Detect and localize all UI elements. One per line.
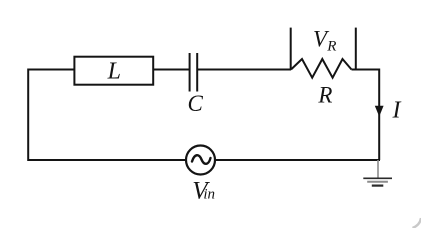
ground bar 3 (bottom, short) <box>372 185 384 187</box>
wire: top-left horizontal from left corner to inductor box <box>28 69 74 71</box>
svg-text:R: R <box>326 39 336 55</box>
ground stub wire <box>377 160 379 178</box>
wire: bottom run from left corner to AC source <box>28 159 185 161</box>
voltage tick right (VR measurement point) <box>355 28 357 70</box>
wire: inductor to capacitor <box>153 69 189 71</box>
voltage tick left (VR measurement point) <box>290 28 292 70</box>
ground bar 2 (middle) <box>367 181 388 183</box>
svg-text:I: I <box>392 98 402 124</box>
current arrow I (arrowhead on right wire) <box>375 106 384 117</box>
wire: bottom run from AC source to ground junction <box>215 159 380 161</box>
page-corner artifact (faint curl at bottom right) <box>413 218 421 228</box>
AC source Vin (circle with sine) <box>186 146 215 175</box>
capacitor C right plate <box>196 53 198 92</box>
ground bar 1 (top, long) <box>363 177 392 179</box>
inductor L (box symbol) <box>74 57 153 85</box>
wire: capacitor to resistor <box>197 69 291 71</box>
wire: resistor to top-right corner and down right side <box>352 70 380 161</box>
svg-text:R: R <box>317 83 332 108</box>
capacitor C left plate <box>189 53 191 92</box>
wire: left vertical side <box>27 69 29 162</box>
AC source sine symbol <box>192 155 211 164</box>
resistor R zigzag <box>291 59 352 78</box>
svg-text:in: in <box>203 186 215 202</box>
svg-text:L: L <box>107 59 121 85</box>
svg-text:C: C <box>188 91 204 116</box>
